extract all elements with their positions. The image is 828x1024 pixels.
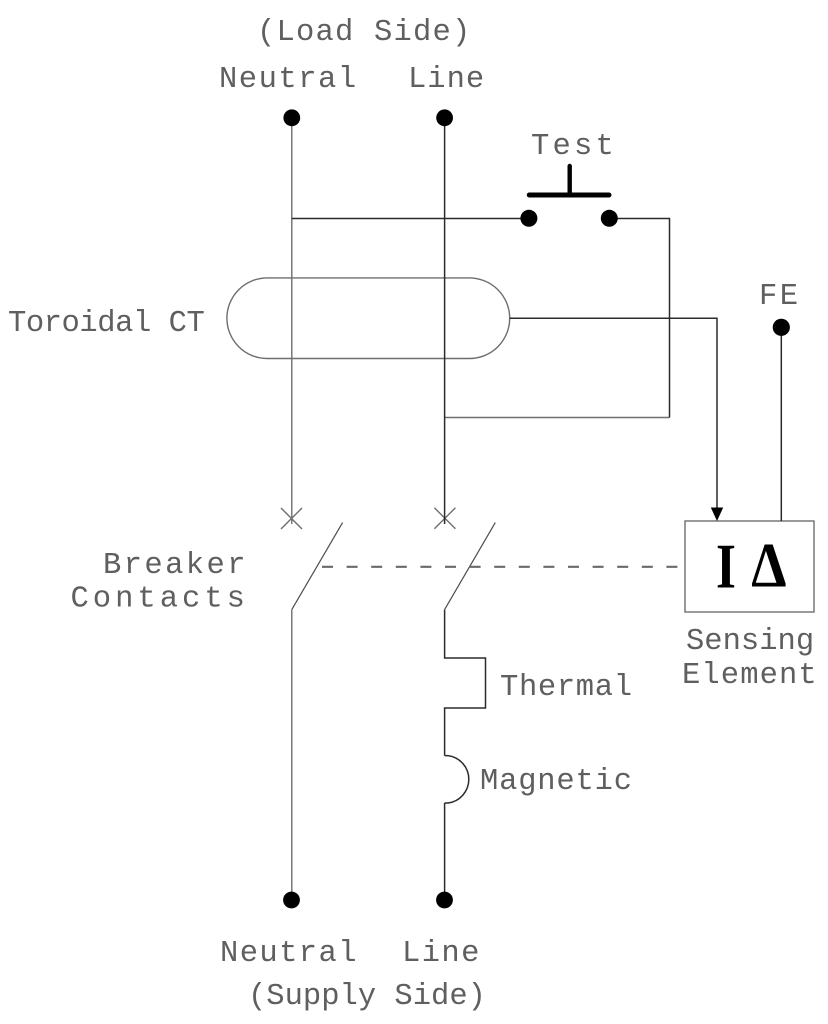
- magnetic element (coil bump): [445, 756, 469, 803]
- wire line load-side vertical: [444, 120, 446, 524]
- test button actuator: [529, 166, 609, 195]
- svg-text:Line: Line: [408, 63, 485, 97]
- wire test tap horizontal (neutral to test button): [292, 218, 521, 220]
- node Line supply-side terminal: [436, 892, 453, 909]
- node test button left contact: [520, 210, 537, 227]
- node FE terminal: [773, 319, 790, 336]
- svg-text:Breaker: Breaker: [103, 549, 248, 583]
- svg-text:Magnetic: Magnetic: [480, 765, 633, 799]
- svg-text:Line: Line: [402, 937, 481, 971]
- toroidal CT core: [227, 278, 510, 359]
- node Line load-side terminal: [436, 109, 453, 126]
- svg-text:Neutral: Neutral: [219, 63, 358, 97]
- svg-text:I: I: [716, 530, 736, 602]
- breaker contact X line: [434, 508, 455, 529]
- svg-text:FE: FE: [759, 280, 800, 314]
- wire neutral supply-side vertical: [291, 610, 293, 898]
- breaker blade neutral: [292, 523, 343, 610]
- svg-text:Sensing: Sensing: [686, 625, 814, 659]
- wire neutral load-side vertical: [291, 120, 293, 524]
- wire test button right to corner: [618, 219, 670, 418]
- breaker blade line: [445, 523, 496, 610]
- wire test corner to line conductor: [445, 417, 670, 419]
- wire CT secondary to sensing element: [510, 318, 717, 508]
- sensing element box U1: [685, 521, 814, 612]
- node Neutral supply-side terminal: [283, 892, 300, 909]
- svg-text:Δ: Δ: [751, 530, 786, 601]
- svg-text:(Load Side): (Load Side): [257, 16, 472, 50]
- arrowhead into sensing element: [711, 508, 723, 522]
- svg-text:(Supply Side): (Supply Side): [248, 980, 486, 1014]
- thermal element (line conductor detour): [445, 610, 486, 756]
- mechanical linkage dashed line: [322, 566, 685, 568]
- node test button right contact: [601, 210, 618, 227]
- svg-text:Test: Test: [531, 130, 617, 164]
- svg-text:Element: Element: [682, 659, 818, 693]
- svg-text:Thermal: Thermal: [500, 671, 633, 705]
- svg-text:Toroidal CT: Toroidal CT: [8, 307, 205, 341]
- wire FE vertical: [780, 331, 782, 521]
- svg-text:Contacts: Contacts: [71, 582, 249, 616]
- wire line to supply terminal: [444, 803, 446, 898]
- breaker contact X neutral: [281, 508, 302, 529]
- node Neutral load-side terminal: [283, 109, 300, 126]
- svg-text:Neutral: Neutral: [220, 937, 358, 971]
